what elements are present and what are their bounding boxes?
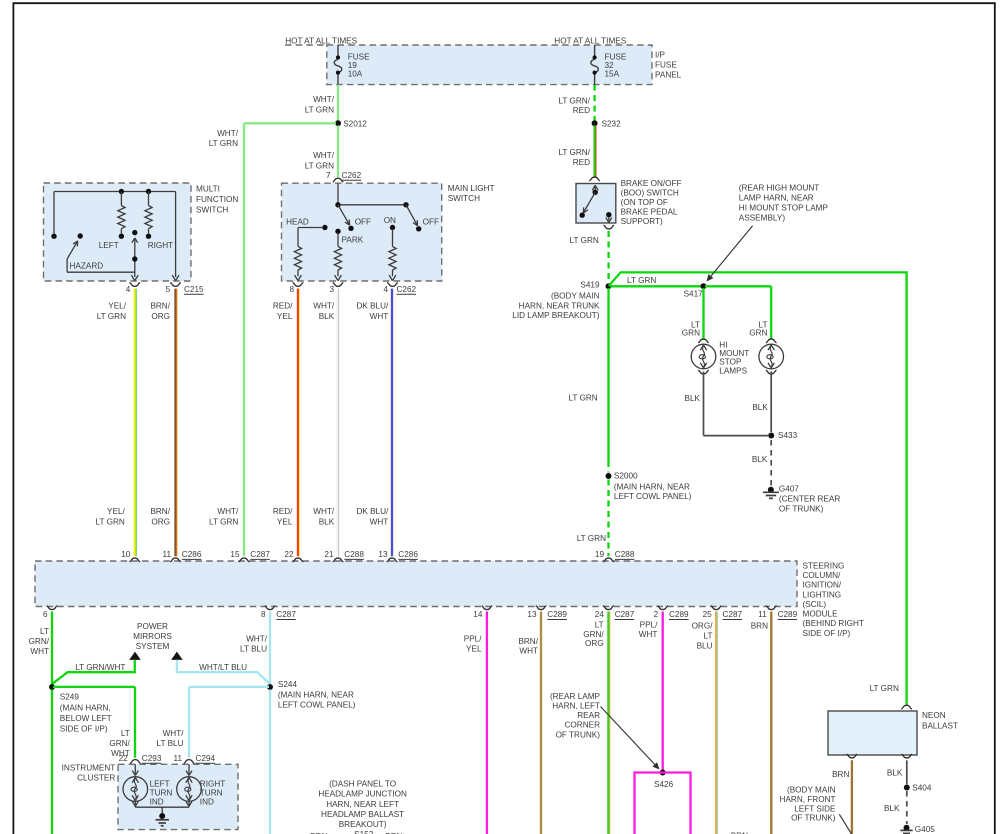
svg-text:(ON TOP OF: (ON TOP OF: [621, 198, 668, 207]
svg-text:(DASH PANEL TO: (DASH PANEL TO: [329, 780, 396, 789]
svg-text:HEADLAMP BALLAST: HEADLAMP BALLAST: [321, 810, 404, 819]
svg-text:ASSEMBLY): ASSEMBLY): [739, 213, 786, 222]
svg-text:GRN/: GRN/: [29, 637, 50, 646]
svg-text:ORG: ORG: [585, 639, 604, 648]
BOO output contact: [606, 212, 611, 217]
svg-text:CLUSTER: CLUSTER: [77, 773, 115, 782]
svg-text:LID LAMP BREAKOUT): LID LAMP BREAKOUT): [512, 311, 599, 320]
svg-text:(REAR HIGH MOUNT: (REAR HIGH MOUNT: [739, 184, 820, 193]
svg-text:BLK: BLK: [319, 312, 335, 321]
svg-text:15A: 15A: [605, 69, 620, 78]
svg-text:C288: C288: [344, 550, 364, 559]
splice S433: [768, 433, 774, 439]
svg-text:GRN/: GRN/: [109, 739, 130, 748]
svg-text:C293: C293: [142, 754, 162, 763]
svg-text:C294: C294: [196, 754, 216, 763]
svg-text:TURN: TURN: [200, 788, 223, 797]
wire WHT/LT BLU SCIL pin8 to S244: [269, 612, 271, 685]
svg-text:WHT: WHT: [519, 647, 538, 656]
svg-text:SUPPORT): SUPPORT): [621, 217, 663, 226]
svg-text:(MAIN HARN, NEAR: (MAIN HARN, NEAR: [278, 690, 354, 699]
wire LT GRN/WHT SCIL pin6 to S249: [51, 612, 53, 685]
wire PPL/YEL SCIL pin14 down (continues): [486, 612, 488, 834]
svg-text:RED/: RED/: [273, 302, 293, 311]
svg-text:BRAKE ON/OFF: BRAKE ON/OFF: [621, 179, 682, 188]
svg-text:FUNCTION: FUNCTION: [196, 195, 238, 204]
svg-text:WHT: WHT: [370, 518, 389, 527]
svg-text:(BOO) SWITCH: (BOO) SWITCH: [621, 188, 679, 197]
svg-text:6: 6: [43, 610, 48, 619]
wire LT GRN S417 to right stop lamp: [705, 285, 771, 287]
svg-text:WHT/: WHT/: [163, 729, 185, 738]
svg-text:(BODY MAIN: (BODY MAIN: [787, 786, 836, 795]
svg-text:LIGHTING: LIGHTING: [803, 590, 842, 599]
svg-text:LT GRN: LT GRN: [570, 236, 599, 245]
svg-text:HAZARD: HAZARD: [70, 261, 104, 270]
svg-text:15: 15: [230, 550, 240, 559]
svg-text:4: 4: [383, 285, 388, 294]
svg-text:RIGHT: RIGHT: [200, 779, 225, 788]
svg-text:WHT: WHT: [639, 630, 658, 639]
wire ORG/LT BLU SCIL pin25 down (continues): [715, 612, 717, 834]
svg-text:MIRRORS: MIRRORS: [133, 632, 172, 641]
svg-text:2: 2: [654, 610, 659, 619]
MFS top bus: [54, 191, 176, 193]
svg-text:22: 22: [284, 550, 294, 559]
svg-text:BLK: BLK: [319, 518, 335, 527]
svg-text:C289: C289: [669, 610, 689, 619]
connector C262 pins 8 3 4: [293, 283, 304, 287]
wire PPL/WHT S426 branch loop (continues): [635, 773, 691, 834]
svg-text:WHT: WHT: [370, 312, 389, 321]
svg-text:RED/: RED/: [273, 507, 293, 516]
svg-text:LEFT: LEFT: [99, 241, 119, 250]
brake on/off (BOO) switch: [576, 184, 616, 224]
svg-text:LT GRN: LT GRN: [627, 276, 656, 285]
svg-text:SWITCH: SWITCH: [196, 205, 228, 214]
svg-text:WHT/: WHT/: [313, 302, 335, 311]
svg-text:C288: C288: [615, 550, 635, 559]
svg-text:PARK: PARK: [342, 236, 364, 245]
svg-text:C286: C286: [398, 550, 418, 559]
svg-text:LAMP HARN, NEAR: LAMP HARN, NEAR: [739, 194, 814, 203]
svg-text:RED: RED: [573, 106, 590, 115]
svg-text:BLK: BLK: [685, 394, 701, 403]
splice S417: [701, 283, 707, 289]
svg-text:NEON: NEON: [922, 711, 946, 720]
svg-text:S244: S244: [278, 680, 298, 689]
wire WHT/BLK pin3 to SCIL pin 21: [337, 289, 339, 557]
svg-text:POWER: POWER: [137, 622, 168, 631]
svg-text:SWITCH: SWITCH: [448, 194, 480, 203]
svg-text:BLU: BLU: [697, 642, 713, 651]
svg-text:YEL: YEL: [466, 644, 482, 653]
svg-text:C287: C287: [723, 610, 743, 619]
svg-text:YEL: YEL: [277, 518, 293, 527]
svg-text:LEFT COWL PANEL): LEFT COWL PANEL): [614, 492, 692, 501]
splice S404: [904, 785, 910, 791]
svg-text:LT: LT: [121, 729, 130, 738]
svg-text:S249: S249: [60, 693, 80, 702]
splice S232: [592, 120, 598, 126]
svg-text:10A: 10A: [348, 69, 363, 78]
svg-text:S2012: S2012: [343, 119, 367, 128]
svg-text:C286: C286: [182, 550, 202, 559]
svg-text:LT BLU: LT BLU: [240, 645, 267, 654]
resistor HEAD: [294, 246, 301, 270]
svg-text:OF TRUNK): OF TRUNK): [556, 730, 601, 739]
svg-text:RIGHT: RIGHT: [148, 241, 173, 250]
svg-text:COLUMN/: COLUMN/: [803, 571, 841, 580]
svg-text:C215: C215: [184, 285, 204, 294]
svg-text:ON: ON: [384, 216, 396, 225]
svg-text:4: 4: [126, 285, 131, 294]
svg-text:BRAKE PEDAL: BRAKE PEDAL: [621, 207, 678, 216]
svg-text:BRN: BRN: [751, 622, 768, 631]
svg-text:LT GRN/: LT GRN/: [558, 96, 590, 105]
svg-text:OFF: OFF: [423, 218, 439, 227]
lamp right turn indicator: [188, 764, 190, 774]
svg-text:LEFT SIDE: LEFT SIDE: [794, 804, 836, 813]
svg-text:G405: G405: [915, 825, 935, 834]
svg-text:IGNITION/: IGNITION/: [803, 581, 842, 590]
svg-text:S419: S419: [580, 281, 600, 290]
svg-text:LT GRN: LT GRN: [209, 139, 238, 148]
svg-text:STEERING: STEERING: [803, 561, 845, 570]
MLS selector bus: [338, 204, 406, 206]
svg-text:HEADLAMP JUNCTION: HEADLAMP JUNCTION: [318, 790, 407, 799]
connector C262 pin 7: [333, 178, 344, 182]
wire LT GRN/RED fuse 32 to S232: [593, 85, 595, 122]
wire LT GRN/ORG SCIL pin24 down (continues): [607, 612, 609, 834]
svg-text:LT GRN: LT GRN: [96, 518, 125, 527]
MFS right leg to pin 5: [175, 192, 177, 278]
svg-text:25: 25: [703, 610, 713, 619]
svg-text:INSTRUMENT: INSTRUMENT: [62, 764, 116, 773]
svg-text:3: 3: [329, 285, 334, 294]
I/P fuse panel: [327, 45, 652, 85]
svg-text:C287: C287: [615, 610, 635, 619]
svg-text:21: 21: [324, 550, 334, 559]
svg-text:IND: IND: [200, 797, 214, 806]
arrow body main harn to BRN wire: [839, 814, 851, 834]
MLS switch arm to OFF: [338, 205, 349, 224]
wire MLS pin7 feed: [337, 183, 339, 205]
svg-text:DK BLU/: DK BLU/: [356, 302, 389, 311]
wire LT GRN S419 to S2000: [607, 288, 609, 461]
svg-text:ORG: ORG: [151, 518, 170, 527]
MLS switch arm 2 to OFF: [406, 205, 417, 225]
svg-text:GRN: GRN: [682, 329, 700, 338]
svg-text:WHT/: WHT/: [313, 507, 335, 516]
wire BLK right lamp to S433: [770, 372, 772, 433]
wire LT GRN/RED S232 to brake switch: [593, 126, 595, 177]
svg-text:LT GRN: LT GRN: [577, 534, 606, 543]
svg-text:LT: LT: [40, 627, 49, 636]
BOO switch arm: [584, 192, 595, 212]
svg-text:LEFT: LEFT: [150, 779, 170, 788]
svg-text:S426: S426: [654, 780, 674, 789]
hi mount stop lamp left: [691, 344, 716, 369]
wire WHT/LT GRN fuse 19 to S2012: [337, 85, 339, 122]
svg-text:MAIN LIGHT: MAIN LIGHT: [448, 184, 495, 193]
svg-text:BLK: BLK: [887, 769, 903, 778]
hazard switch arm: [78, 233, 83, 238]
svg-text:C287: C287: [276, 610, 296, 619]
svg-text:BLK: BLK: [752, 403, 768, 412]
svg-text:WHT/: WHT/: [217, 507, 239, 516]
svg-text:IND: IND: [150, 797, 164, 806]
wire PPL/WHT SCIL pin2 to S426: [662, 612, 664, 772]
svg-text:(REAR LAMP: (REAR LAMP: [550, 692, 601, 701]
svg-text:OF TRUNK): OF TRUNK): [779, 505, 824, 514]
svg-text:LT GRN: LT GRN: [305, 106, 334, 115]
resistor ON: [389, 246, 396, 270]
svg-text:BRN: BRN: [832, 770, 849, 779]
brake on/off switch connector: [589, 177, 600, 181]
hazard wire to pin 4 leg: [66, 259, 68, 272]
svg-text:S2000: S2000: [614, 472, 638, 481]
svg-text:11: 11: [758, 610, 767, 619]
connector C293 pin 22: [130, 760, 141, 764]
svg-text:OFF: OFF: [355, 218, 371, 227]
svg-text:WHT/LT BLU: WHT/LT BLU: [199, 663, 247, 672]
svg-text:(MAIN HARN,: (MAIN HARN,: [60, 703, 111, 712]
svg-text:TURN: TURN: [150, 788, 173, 797]
wire BRN/WHT SCIL pin13 down (continues): [540, 612, 542, 834]
resistor PARK: [334, 246, 341, 270]
wire LT GRN/WHT branch to power mirrors: [129, 652, 141, 660]
svg-text:DK BLU/: DK BLU/: [356, 507, 389, 516]
wire BRN ballast down (continues): [851, 760, 853, 834]
wire BLK left lamp to S433: [703, 372, 705, 436]
splice S249: [49, 684, 55, 690]
svg-text:10: 10: [121, 550, 131, 559]
fuse 19 10A: [337, 45, 339, 57]
splice S2000: [606, 473, 612, 479]
svg-text:BELOW LEFT: BELOW LEFT: [60, 714, 112, 723]
svg-text:5: 5: [166, 285, 171, 294]
svg-text:7: 7: [326, 171, 331, 180]
connector C294 pin 11: [184, 760, 195, 764]
splice S244: [267, 684, 273, 690]
svg-text:11: 11: [174, 754, 183, 763]
svg-text:MULTI: MULTI: [196, 184, 220, 193]
svg-text:LAMPS: LAMPS: [719, 366, 747, 375]
svg-text:(BODY MAIN: (BODY MAIN: [551, 291, 600, 300]
svg-text:BRN/: BRN/: [150, 302, 170, 311]
svg-text:C289: C289: [778, 610, 798, 619]
svg-text:8: 8: [289, 285, 294, 294]
ground G407: [768, 487, 774, 493]
svg-text:YEL/: YEL/: [107, 507, 125, 516]
svg-text:G407: G407: [779, 484, 799, 493]
svg-text:YEL/: YEL/: [108, 302, 126, 311]
svg-text:19: 19: [595, 550, 605, 559]
svg-text:C262: C262: [397, 285, 417, 294]
wire YEL/LT GRN pin4 to SCIL pin 10: [134, 289, 136, 557]
svg-text:PPL/: PPL/: [464, 635, 482, 644]
svg-text:BLK: BLK: [884, 804, 900, 813]
svg-text:HARN, NEAR LEFT: HARN, NEAR LEFT: [326, 800, 399, 809]
svg-text:BREAKOUT): BREAKOUT): [339, 820, 387, 829]
connector C215 pins 4 5: [130, 283, 141, 287]
svg-text:WHT/: WHT/: [246, 634, 268, 643]
svg-text:22: 22: [119, 754, 129, 763]
svg-text:LT GRN: LT GRN: [97, 312, 126, 321]
svg-text:YEL: YEL: [277, 312, 293, 321]
wire WHT/LT BLU branch to power mirrors: [171, 652, 183, 660]
SCIL module: [35, 561, 797, 607]
wire BRN SCIL pin11 down (continues): [770, 612, 772, 834]
svg-text:LT GRN: LT GRN: [568, 393, 597, 402]
svg-text:OF TRUNK): OF TRUNK): [791, 813, 836, 822]
neon ballast connector top: [901, 705, 912, 709]
svg-text:SIDE OF I/P): SIDE OF I/P): [60, 725, 108, 734]
svg-text:HARN, LEFT: HARN, LEFT: [552, 702, 600, 711]
svg-text:13: 13: [378, 550, 388, 559]
svg-text:LEFT COWL PANEL): LEFT COWL PANEL): [278, 701, 356, 710]
hi mount stop lamp right: [759, 344, 784, 369]
svg-text:PPL/: PPL/: [640, 621, 658, 630]
svg-text:GRN/: GRN/: [583, 630, 604, 639]
svg-text:13: 13: [527, 610, 537, 619]
svg-text:REAR: REAR: [577, 711, 600, 720]
svg-text:S152: S152: [354, 830, 374, 834]
svg-text:PANEL: PANEL: [655, 71, 682, 80]
wire LT GRN S419 to S417: [610, 285, 704, 287]
svg-text:S232: S232: [602, 119, 622, 128]
svg-text:HOT AT ALL TIMES: HOT AT ALL TIMES: [554, 37, 626, 46]
svg-text:BALLAST: BALLAST: [922, 721, 958, 730]
main light switch: [282, 183, 442, 281]
wire LT GRN brake switch to S419: [607, 231, 609, 283]
svg-text:BRN/: BRN/: [150, 507, 170, 516]
svg-text:HARN, FRONT: HARN, FRONT: [780, 795, 836, 804]
svg-text:HOT AT ALL TIMES: HOT AT ALL TIMES: [285, 37, 357, 46]
svg-text:WHT/: WHT/: [217, 129, 239, 138]
wire WHT/LT GRN S2012 to C262 pin 7: [337, 126, 339, 178]
neon ballast bottom connectors: [847, 754, 858, 758]
svg-text:HEAD: HEAD: [286, 218, 309, 227]
svg-text:C289: C289: [547, 610, 567, 619]
svg-text:(BEHIND RIGHT: (BEHIND RIGHT: [803, 619, 864, 628]
SCIL top connectors row: [130, 558, 141, 562]
wire BLK S404 to G405: [906, 791, 908, 824]
svg-text:(MAIN HARN, NEAR: (MAIN HARN, NEAR: [614, 482, 690, 491]
wire BRN/ORG pin5 to SCIL pin 11: [174, 289, 176, 557]
svg-text:ORG/: ORG/: [692, 622, 714, 631]
svg-text:8: 8: [261, 610, 266, 619]
svg-text:LT GRN/: LT GRN/: [558, 148, 590, 157]
svg-text:RED: RED: [573, 158, 590, 167]
SCIL bottom connectors row: [47, 606, 58, 610]
svg-text:BRN/: BRN/: [518, 637, 538, 646]
svg-text:LT BLU: LT BLU: [157, 739, 184, 748]
svg-text:WHT/: WHT/: [313, 151, 335, 160]
wire WHT/LT BLU S244 down (continues): [269, 690, 271, 834]
cluster lamp common bus: [135, 806, 189, 808]
wire LT GRN/WHT S249 down (continues): [51, 690, 53, 834]
svg-text:LT GRN: LT GRN: [870, 684, 899, 693]
svg-text:S417: S417: [684, 289, 704, 298]
wire BLK S433 to G407: [770, 440, 772, 486]
svg-text:FUSE: FUSE: [655, 61, 677, 70]
svg-text:BLK: BLK: [752, 455, 768, 464]
wire WHT/LT BLU S244 to cluster C294: [189, 686, 269, 688]
wire LT GRN S419 to neon ballast (top run): [609, 272, 907, 705]
wire WHT/LT GRN S2012 to SCIL pin 15: [244, 122, 336, 124]
wire LT GRN S417 to left stop lamp: [702, 288, 704, 339]
wire BLK ballast to S404: [906, 760, 908, 784]
fuse 32 15A: [594, 45, 596, 57]
MLS PARK contact: [335, 229, 340, 234]
MFS left contact leg: [53, 192, 55, 234]
resistor LEFT: [120, 192, 122, 206]
svg-text:S433: S433: [778, 431, 798, 440]
svg-text:LT GRN: LT GRN: [209, 518, 238, 527]
svg-text:C262: C262: [342, 171, 362, 180]
svg-text:SIDE OF I/P): SIDE OF I/P): [803, 629, 851, 638]
svg-text:CORNER: CORNER: [565, 721, 601, 730]
svg-text:(SCIL): (SCIL): [803, 600, 827, 609]
svg-text:LT GRN/WHT: LT GRN/WHT: [75, 663, 125, 672]
lamp left turn indicator: [134, 764, 136, 774]
svg-text:24: 24: [595, 610, 605, 619]
svg-text:14: 14: [473, 610, 483, 619]
svg-text:ORG: ORG: [151, 312, 170, 321]
multi-function switch: [44, 183, 192, 281]
splice S2012: [335, 120, 341, 126]
svg-text:C287: C287: [250, 550, 270, 559]
svg-text:WHT: WHT: [30, 647, 49, 656]
svg-text:WHT/: WHT/: [313, 95, 335, 104]
svg-text:LT: LT: [595, 621, 604, 630]
splice S419: [606, 283, 612, 289]
svg-text:I/P: I/P: [655, 51, 666, 60]
svg-text:GRN: GRN: [749, 329, 767, 338]
resistor RIGHT: [148, 192, 150, 206]
wire RED/YEL pin8 to SCIL pin 22: [297, 289, 299, 557]
neon ballast: [828, 711, 917, 755]
svg-text:(CENTER REAR: (CENTER REAR: [779, 495, 840, 504]
svg-text:HARN, NEAR TRUNK: HARN, NEAR TRUNK: [519, 301, 600, 310]
svg-text:MODULE: MODULE: [803, 610, 839, 619]
cluster ground: [159, 813, 165, 819]
turn signal switch arm: [132, 230, 137, 235]
svg-text:S404: S404: [912, 783, 932, 792]
wire LT GRN/WHT S249 to cluster C293: [53, 686, 135, 688]
splice S426: [660, 770, 666, 776]
svg-text:SYSTEM: SYSTEM: [136, 642, 170, 651]
wire LT GRN S2000 to SCIL pin 19: [607, 480, 609, 557]
svg-text:LT: LT: [704, 632, 713, 641]
svg-text:HI MOUNT STOP LAMP: HI MOUNT STOP LAMP: [739, 203, 829, 212]
svg-text:LT GRN: LT GRN: [305, 161, 334, 170]
ground G405: [904, 825, 910, 831]
wire DK BLU/WHT pin4 to SCIL pin 13: [391, 289, 393, 557]
svg-text:11: 11: [163, 550, 172, 559]
